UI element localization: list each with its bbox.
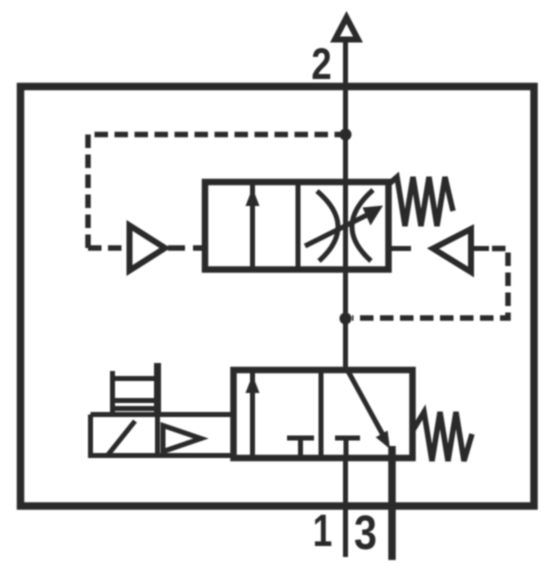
- svg-text:1: 1: [313, 505, 333, 556]
- svg-text:2: 2: [311, 39, 331, 89]
- svg-text:3: 3: [354, 505, 377, 560]
